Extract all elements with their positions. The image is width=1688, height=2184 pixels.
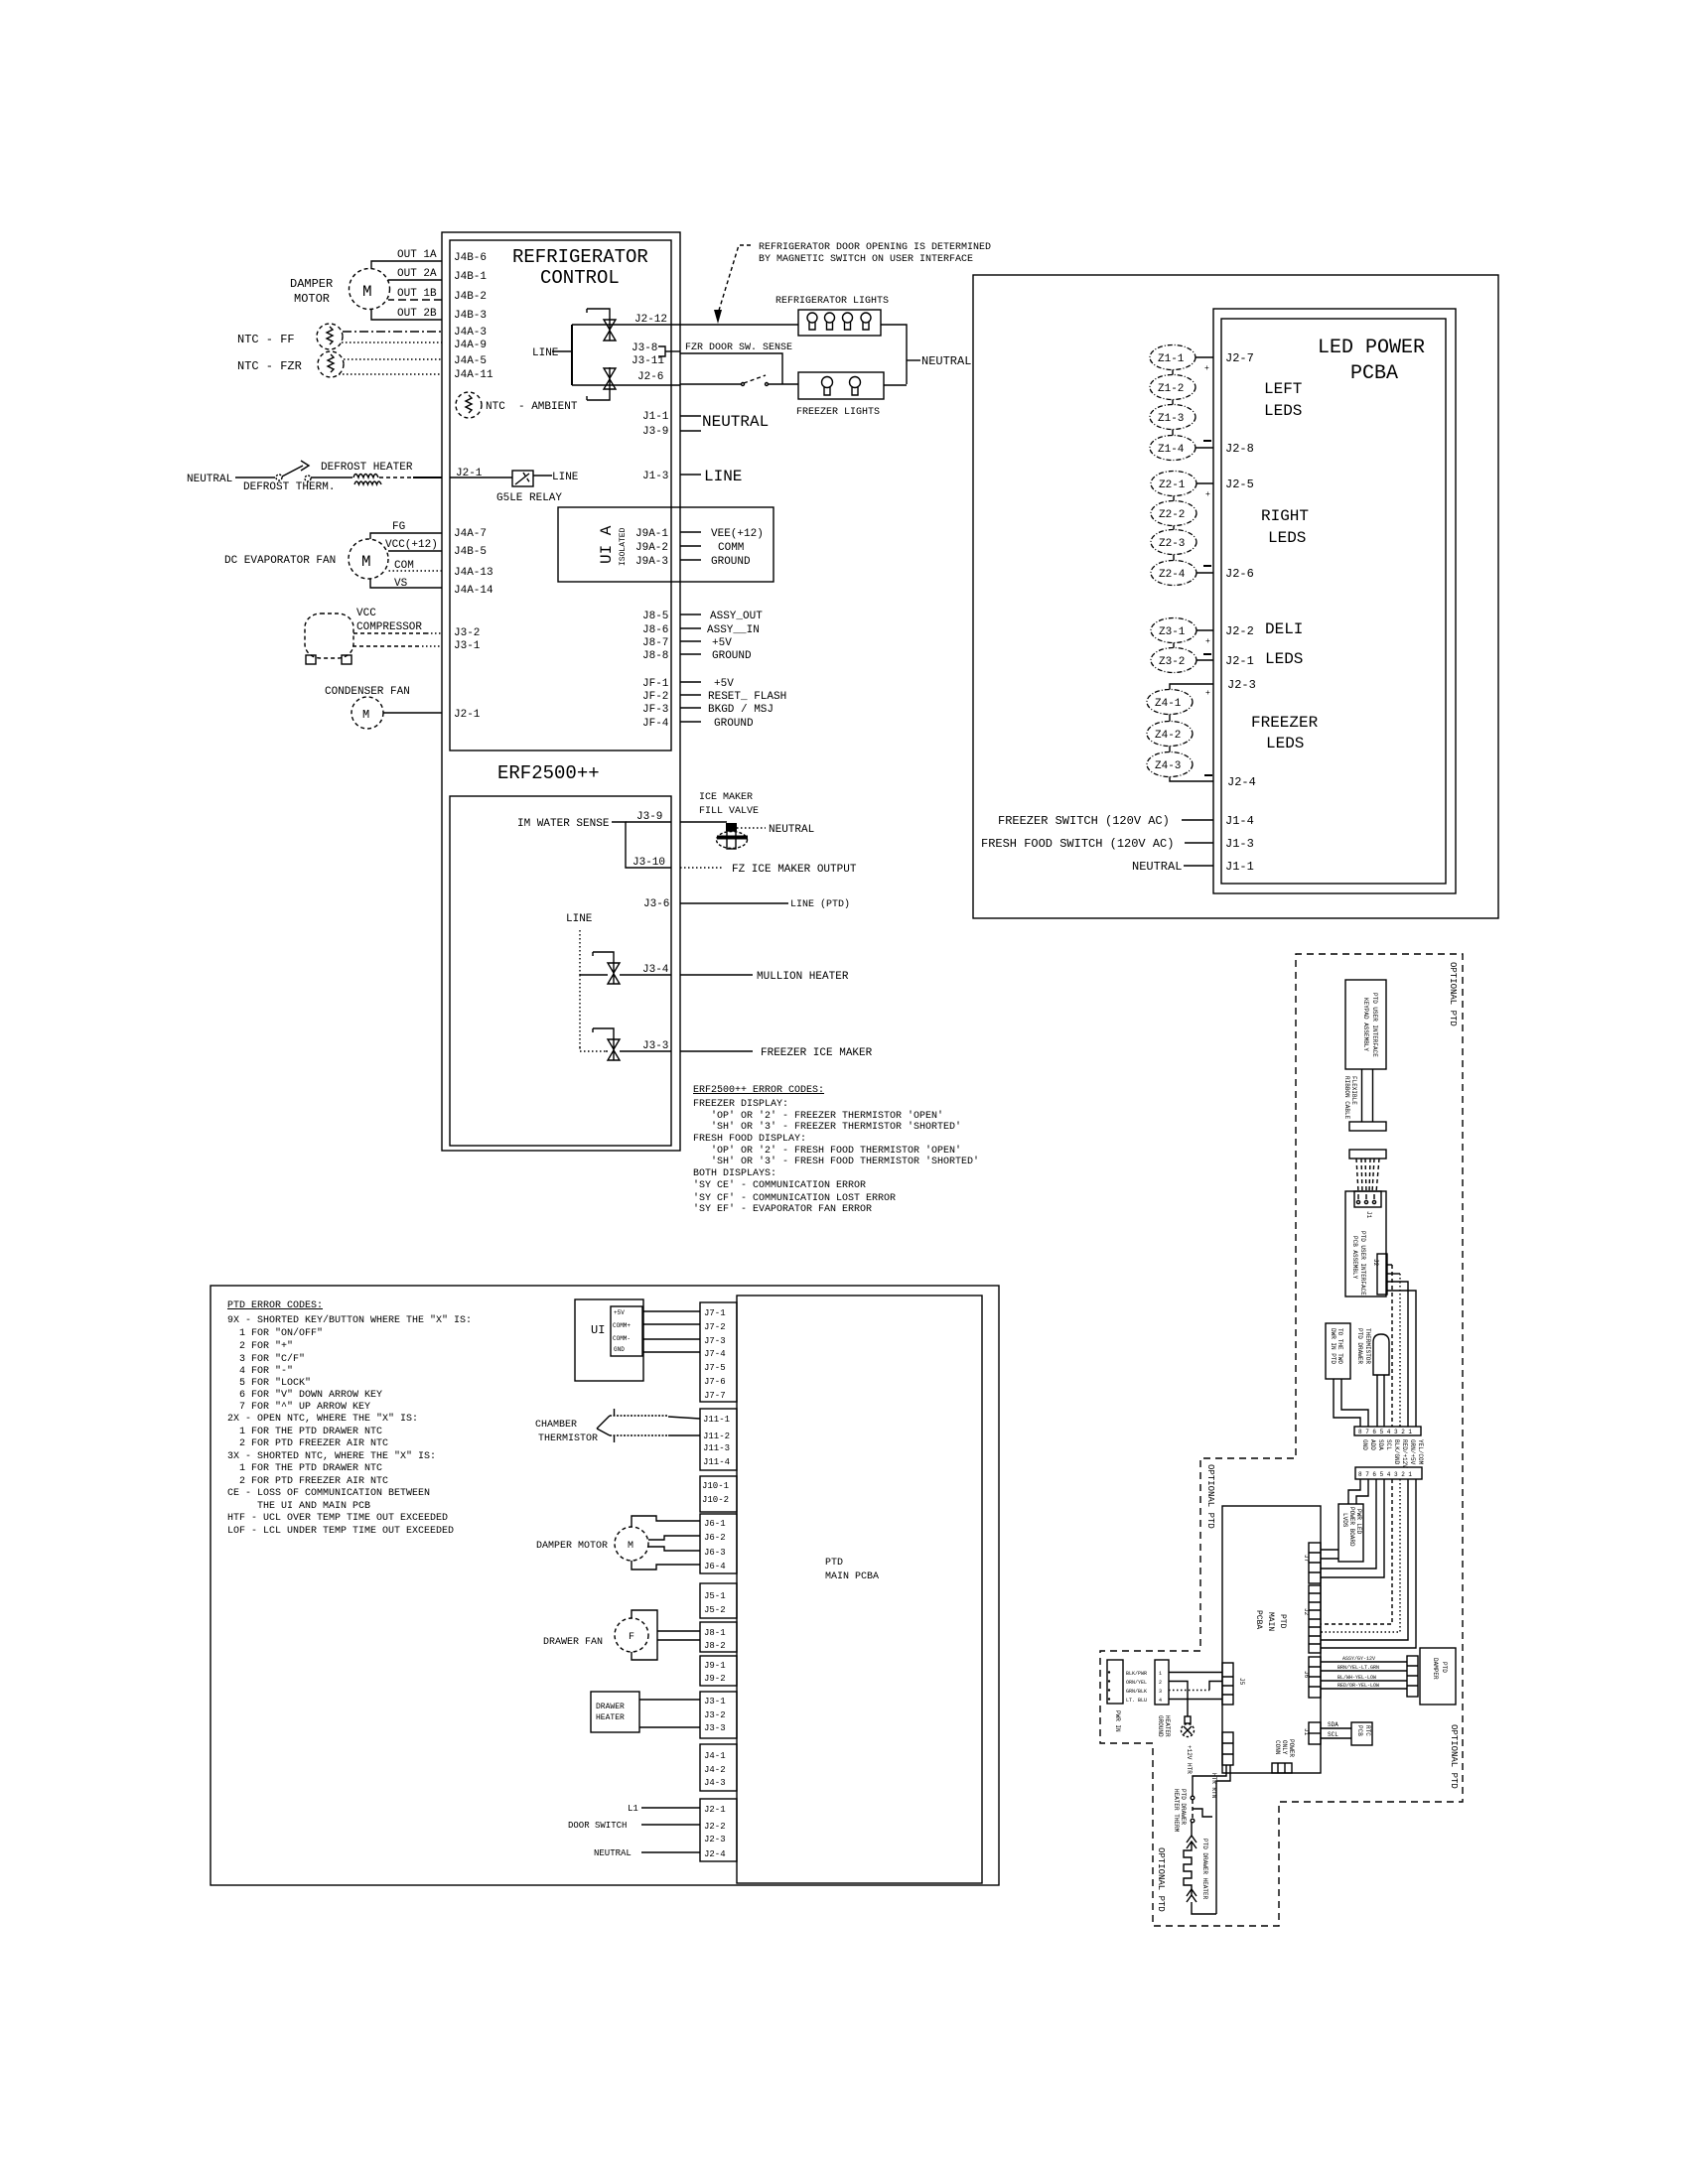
svg-text:FZR DOOR SW. SENSE: FZR DOOR SW. SENSE	[685, 342, 792, 353]
svg-text:J8-5: J8-5	[642, 611, 668, 622]
svg-text:5 FOR "LOCK": 5 FOR "LOCK"	[227, 1377, 311, 1389]
svg-text:MOTOR: MOTOR	[294, 292, 330, 306]
svg-text:REFRIGERATOR: REFRIGERATOR	[512, 246, 648, 268]
svg-text:J5-2: J5-2	[704, 1605, 726, 1615]
svg-text:J2-12: J2-12	[634, 314, 667, 326]
svg-text:J4-1: J4-1	[704, 1751, 726, 1761]
svg-text:J9A-2: J9A-2	[635, 542, 668, 554]
svg-text:J4A-5: J4A-5	[454, 355, 487, 367]
svg-text:J6: J6	[1303, 1671, 1310, 1679]
svg-text:Z4-3: Z4-3	[1155, 760, 1181, 772]
svg-text:+5V: +5V	[614, 1309, 625, 1316]
svg-text:PTD: PTD	[1441, 1662, 1448, 1673]
svg-text:HEATER THERM: HEATER THERM	[1173, 1789, 1180, 1833]
svg-text:J1-1: J1-1	[1225, 860, 1254, 874]
svg-text:ERF2500++: ERF2500++	[497, 762, 600, 784]
svg-text:J2-6: J2-6	[1225, 567, 1254, 581]
svg-text:SDA: SDA	[1328, 1721, 1338, 1728]
svg-text:DEFROST THERM.: DEFROST THERM.	[243, 481, 335, 493]
svg-text:NTC - AMBIENT: NTC - AMBIENT	[486, 401, 578, 413]
svg-text:PWR IN: PWR IN	[1114, 1710, 1121, 1732]
svg-text:G5LE RELAY: G5LE RELAY	[496, 492, 562, 504]
svg-text:J2: J2	[1303, 1608, 1310, 1616]
svg-text:3 FOR "C/F": 3 FOR "C/F"	[227, 1353, 305, 1365]
svg-text:LED POWER: LED POWER	[1318, 337, 1425, 359]
svg-text:3X - SHORTED NTC, WHERE THE "X: 3X - SHORTED NTC, WHERE THE "X" IS:	[227, 1450, 436, 1462]
svg-text:FREEZER ICE MAKER: FREEZER ICE MAKER	[761, 1047, 873, 1059]
svg-text:J4A-13: J4A-13	[454, 567, 493, 579]
svg-text:Z4-2: Z4-2	[1155, 730, 1181, 742]
svg-text:J11-2: J11-2	[703, 1432, 730, 1441]
svg-text:+12V HTR: +12V HTR	[1186, 1745, 1193, 1774]
svg-text:COMM-: COMM-	[613, 1335, 631, 1342]
svg-text:POWER: POWER	[1288, 1739, 1295, 1757]
svg-text:3: 3	[1159, 1689, 1162, 1695]
svg-text:UI: UI	[591, 1323, 605, 1337]
svg-text:J6-1: J6-1	[704, 1519, 726, 1529]
svg-text:J9-2: J9-2	[704, 1674, 726, 1684]
svg-text:CONN: CONN	[1274, 1740, 1281, 1755]
svg-text:FG: FG	[392, 521, 405, 533]
svg-text:J2-7: J2-7	[1225, 351, 1254, 365]
svg-text:J3-8: J3-8	[632, 342, 657, 354]
svg-text:J7-6: J7-6	[704, 1377, 726, 1387]
svg-text:GND: GND	[1361, 1439, 1368, 1450]
svg-text:OUT 2B: OUT 2B	[397, 308, 437, 320]
svg-text:LEDS: LEDS	[1264, 402, 1302, 420]
svg-text:J2-4: J2-4	[1227, 775, 1256, 789]
svg-text:J9A-3: J9A-3	[635, 556, 668, 568]
svg-text:DAMPER MOTOR: DAMPER MOTOR	[536, 1541, 608, 1552]
svg-text:LINE: LINE	[552, 472, 579, 483]
svg-text:VCC: VCC	[356, 608, 376, 619]
svg-text:PTD: PTD	[825, 1558, 843, 1569]
svg-text:2 FOR PTD FREEZER AIR NTC: 2 FOR PTD FREEZER AIR NTC	[227, 1476, 388, 1487]
svg-text:Z1-1: Z1-1	[1158, 353, 1185, 365]
svg-text:MULLION HEATER: MULLION HEATER	[757, 971, 849, 983]
svg-text:OUT 2A: OUT 2A	[397, 268, 437, 280]
svg-text:DELI: DELI	[1265, 620, 1303, 638]
svg-text:4 FOR "-": 4 FOR "-"	[227, 1365, 293, 1377]
svg-text:ONLY: ONLY	[1281, 1740, 1288, 1755]
svg-text:COMPRESSOR: COMPRESSOR	[356, 621, 422, 633]
svg-text:COMM+: COMM+	[613, 1322, 631, 1329]
svg-text:IM WATER SENSE: IM WATER SENSE	[517, 818, 610, 830]
svg-text:J3-2: J3-2	[454, 627, 480, 639]
svg-text:RED/+12V: RED/+12V	[1401, 1439, 1408, 1468]
svg-text:PCBA: PCBA	[1350, 362, 1398, 385]
svg-text:J1-1: J1-1	[642, 411, 669, 423]
svg-text:RTC: RTC	[1364, 1725, 1371, 1736]
svg-text:RESET_ FLASH: RESET_ FLASH	[708, 691, 786, 703]
svg-text:J1-3: J1-3	[642, 471, 668, 482]
svg-text:Z1-3: Z1-3	[1158, 413, 1184, 425]
svg-text:THERMISTOR: THERMISTOR	[538, 1433, 598, 1444]
svg-text:OUT 1B: OUT 1B	[397, 288, 437, 300]
svg-text:HEATER: HEATER	[596, 1713, 625, 1722]
svg-text:PTD USER INTERFACE: PTD USER INTERFACE	[1359, 1231, 1366, 1296]
svg-text:LINE: LINE	[704, 468, 742, 485]
svg-text:J5-1: J5-1	[704, 1591, 726, 1601]
svg-text:Z2-2: Z2-2	[1159, 509, 1185, 521]
svg-text:CE - LOSS OF COMMUNICATION BET: CE - LOSS OF COMMUNICATION BETWEEN	[227, 1488, 430, 1499]
svg-text:'SY CF' - COMMUNICATION LOST E: 'SY CF' - COMMUNICATION LOST ERROR	[693, 1192, 896, 1204]
svg-text:FREEZER SWITCH (120V AC): FREEZER SWITCH (120V AC)	[998, 814, 1170, 828]
svg-text:J3-9: J3-9	[642, 426, 668, 438]
svg-text:J3-3: J3-3	[642, 1040, 668, 1052]
svg-text:J3-1: J3-1	[454, 640, 481, 652]
svg-text:FRESH FOOD SWITCH (120V AC): FRESH FOOD SWITCH (120V AC)	[981, 837, 1174, 851]
svg-text:J10-1: J10-1	[702, 1481, 729, 1491]
svg-text:PCB: PCB	[1356, 1725, 1363, 1736]
svg-text:GROUND: GROUND	[712, 650, 752, 662]
svg-text:'SH' OR '3' - FRESH FOOD THERM: 'SH' OR '3' - FRESH FOOD THERMISTOR 'SHO…	[693, 1156, 979, 1167]
svg-text:CONDENSER FAN: CONDENSER FAN	[325, 686, 410, 698]
svg-text:THE UI AND MAIN PCB: THE UI AND MAIN PCB	[227, 1501, 370, 1512]
svg-text:+: +	[1204, 364, 1209, 373]
svg-text:'OP' OR '2' - FRESH FOOD THERM: 'OP' OR '2' - FRESH FOOD THERMISTOR 'OPE…	[693, 1145, 961, 1157]
svg-text:J1: J1	[1365, 1211, 1372, 1219]
svg-text:1 FOR THE PTD DRAWER NTC: 1 FOR THE PTD DRAWER NTC	[227, 1427, 382, 1437]
svg-text:Z4-1: Z4-1	[1155, 698, 1182, 710]
svg-text:FREEZER LIGHTS: FREEZER LIGHTS	[796, 407, 880, 418]
svg-text:PTD USER INTERFACE: PTD USER INTERFACE	[1371, 993, 1378, 1057]
svg-text:'OP' OR '2' - FREEZER THERMIST: 'OP' OR '2' - FREEZER THERMISTOR 'OPEN'	[693, 1110, 943, 1122]
svg-text:PTD DRAWER: PTD DRAWER	[1356, 1328, 1363, 1364]
svg-text:REFRIGERATOR DOOR OPENING IS D: REFRIGERATOR DOOR OPENING IS DETERMINED	[759, 242, 991, 253]
svg-text:DOOR SWITCH: DOOR SWITCH	[568, 1821, 627, 1831]
svg-text:J3-4: J3-4	[642, 964, 669, 976]
svg-text:DAMPER: DAMPER	[290, 277, 333, 291]
svg-text:J11-4: J11-4	[703, 1457, 730, 1467]
svg-text:BY MAGNETIC SWITCH ON USER INT: BY MAGNETIC SWITCH ON USER INTERFACE	[759, 254, 973, 265]
svg-text:VEE(+12): VEE(+12)	[711, 528, 764, 540]
svg-text:J2-1: J2-1	[1225, 654, 1254, 668]
svg-text:J8-2: J8-2	[704, 1641, 726, 1651]
svg-text:POWER BOARD: POWER BOARD	[1348, 1507, 1355, 1547]
svg-text:VCC(+12): VCC(+12)	[385, 539, 438, 551]
svg-text:FREEZER: FREEZER	[1251, 714, 1319, 732]
svg-text:OPTIONAL PTD: OPTIONAL PTD	[1205, 1464, 1215, 1529]
svg-text:J3-1: J3-1	[704, 1697, 726, 1706]
svg-text:J3-3: J3-3	[704, 1723, 726, 1733]
svg-text:LEDS: LEDS	[1266, 735, 1304, 752]
svg-text:RIBBON CABLE: RIBBON CABLE	[1343, 1076, 1350, 1120]
svg-text:JF-1: JF-1	[642, 678, 669, 690]
svg-text:2 FOR "+": 2 FOR "+"	[227, 1340, 293, 1352]
svg-text:J4B-2: J4B-2	[454, 291, 487, 303]
svg-text:ERF2500++ ERROR CODES:: ERF2500++ ERROR CODES:	[693, 1085, 824, 1096]
svg-text:J4A-11: J4A-11	[454, 369, 493, 381]
svg-text:BL/WH-YEL-LOW: BL/WH-YEL-LOW	[1337, 1675, 1376, 1681]
svg-text:+: +	[1205, 490, 1210, 499]
svg-text:M: M	[362, 283, 372, 301]
svg-text:LVDS: LVDS	[1341, 1513, 1348, 1528]
svg-text:J3-9: J3-9	[636, 811, 662, 823]
svg-text:ASSY__IN: ASSY__IN	[707, 624, 760, 636]
svg-text:DRAWER FAN: DRAWER FAN	[543, 1637, 603, 1648]
svg-text:NEUTRAL: NEUTRAL	[1132, 860, 1182, 874]
svg-text:OPTIONAL PTD: OPTIONAL PTD	[1449, 1724, 1459, 1789]
svg-text:J2-1: J2-1	[704, 1805, 726, 1815]
svg-text:Z2-4: Z2-4	[1159, 569, 1186, 581]
svg-text:L1: L1	[628, 1804, 638, 1814]
svg-text:J9A-1: J9A-1	[635, 528, 668, 540]
svg-text:'SY EF' - EVAPORATOR FAN ERROR: 'SY EF' - EVAPORATOR FAN ERROR	[693, 1203, 872, 1215]
svg-text:GROUND: GROUND	[711, 556, 751, 568]
svg-text:BLK/GND: BLK/GND	[1393, 1439, 1400, 1465]
svg-text:J4A-14: J4A-14	[454, 585, 493, 597]
svg-text:J2-2: J2-2	[1225, 624, 1254, 638]
svg-text:CONTROL: CONTROL	[540, 267, 620, 289]
svg-text:J2-8: J2-8	[1225, 442, 1254, 456]
svg-text:J4A-3: J4A-3	[454, 327, 487, 339]
svg-text:YEL/COM: YEL/COM	[1417, 1439, 1424, 1465]
svg-text:J5: J5	[1238, 1678, 1245, 1686]
svg-text:BOTH DISPLAYS:: BOTH DISPLAYS:	[693, 1168, 776, 1179]
svg-text:COMM: COMM	[718, 542, 744, 554]
svg-text:REFRIGERATOR LIGHTS: REFRIGERATOR LIGHTS	[775, 296, 889, 307]
svg-text:LEFT: LEFT	[1264, 380, 1302, 398]
svg-text:HTF - UCL OVER TEMP TIME OUT E: HTF - UCL OVER TEMP TIME OUT EXCEEDED	[227, 1513, 448, 1524]
svg-text:LINE: LINE	[532, 347, 559, 359]
svg-text:DRAWER: DRAWER	[596, 1703, 625, 1711]
svg-text:J7-7: J7-7	[704, 1391, 726, 1401]
svg-text:NEUTRAL: NEUTRAL	[921, 354, 971, 368]
svg-text:LINE: LINE	[566, 913, 593, 925]
svg-text:LOF - LCL UNDER TEMP TIME OUT: LOF - LCL UNDER TEMP TIME OUT EXCEEDED	[227, 1526, 454, 1537]
svg-text:Z3-1: Z3-1	[1159, 626, 1186, 638]
svg-text:J7-5: J7-5	[704, 1363, 726, 1373]
svg-text:J2-3: J2-3	[1227, 678, 1256, 692]
svg-text:FREEZER DISPLAY:: FREEZER DISPLAY:	[693, 1099, 788, 1110]
svg-text:HEATER: HEATER	[1164, 1715, 1171, 1737]
svg-text:GRN/+5V: GRN/+5V	[1409, 1439, 1416, 1465]
svg-text:J4B-1: J4B-1	[454, 271, 487, 283]
svg-text:OPTIONAL PTD: OPTIONAL PTD	[1448, 962, 1458, 1026]
svg-text:SDA: SDA	[1377, 1439, 1384, 1450]
svg-text:SCL: SCL	[1385, 1439, 1392, 1450]
svg-text:6 FOR "V" DOWN ARROW KEY: 6 FOR "V" DOWN ARROW KEY	[227, 1389, 382, 1401]
svg-text:J7-3: J7-3	[704, 1336, 726, 1346]
svg-text:PTD: PTD	[1278, 1614, 1287, 1629]
svg-text:J4B-3: J4B-3	[454, 310, 487, 322]
svg-text:2X - OPEN NTC, WHERE THE "X" I: 2X - OPEN NTC, WHERE THE "X" IS:	[227, 1413, 418, 1425]
svg-text:J7-1: J7-1	[704, 1308, 726, 1318]
svg-text:RIGHT: RIGHT	[1261, 507, 1309, 525]
svg-text:BRN/YEL-LT.GRN: BRN/YEL-LT.GRN	[1337, 1665, 1379, 1671]
svg-text:FLEXIBLE: FLEXIBLE	[1350, 1076, 1357, 1105]
svg-text:NEUTRAL: NEUTRAL	[769, 824, 814, 836]
svg-text:J2-6: J2-6	[637, 371, 663, 383]
svg-text:J2-2: J2-2	[704, 1822, 726, 1832]
svg-text:JF-3: JF-3	[642, 704, 668, 716]
svg-text:KEYPAD ASSEMBLY: KEYPAD ASSEMBLY	[1362, 998, 1369, 1051]
svg-text:J6-3: J6-3	[704, 1548, 726, 1558]
svg-text:TO THE TWO: TO THE TWO	[1336, 1328, 1343, 1364]
svg-text:BKGD / MSJ: BKGD / MSJ	[708, 704, 774, 716]
svg-text:FRESH FOOD DISPLAY:: FRESH FOOD DISPLAY:	[693, 1134, 806, 1145]
svg-text:8 7 6 5 4 3 2 1: 8 7 6 5 4 3 2 1	[1358, 1429, 1412, 1435]
svg-text:JF-2: JF-2	[642, 691, 668, 703]
svg-text:NEUTRAL: NEUTRAL	[702, 413, 769, 431]
svg-text:+: +	[1205, 689, 1210, 698]
svg-text:J4B-5: J4B-5	[454, 546, 487, 558]
svg-text:ASSY_OUT: ASSY_OUT	[710, 611, 763, 622]
svg-text:F: F	[629, 1632, 634, 1643]
svg-text:GRN/BLK: GRN/BLK	[1126, 1689, 1147, 1695]
svg-text:MAIN PCBA: MAIN PCBA	[825, 1571, 879, 1582]
svg-text:UI A: UI A	[598, 525, 616, 564]
svg-text:J2-4: J2-4	[704, 1849, 726, 1859]
svg-text:J2: J2	[1372, 1259, 1379, 1267]
svg-text:2: 2	[1159, 1680, 1162, 1686]
svg-text:J4B-6: J4B-6	[454, 252, 487, 264]
svg-text:J4A-9: J4A-9	[454, 340, 487, 351]
svg-text:PWR LED: PWR LED	[1355, 1509, 1362, 1535]
svg-text:J7-4: J7-4	[704, 1349, 726, 1359]
svg-text:J3-2: J3-2	[704, 1710, 726, 1720]
svg-text:DAMPER: DAMPER	[1432, 1658, 1439, 1680]
svg-text:7 FOR "^" UP ARROW KEY: 7 FOR "^" UP ARROW KEY	[227, 1401, 370, 1413]
svg-text:ADD: ADD	[1369, 1439, 1376, 1450]
svg-text:J8-8: J8-8	[642, 650, 668, 662]
svg-text:M: M	[628, 1541, 633, 1552]
svg-text:SCL: SCL	[1328, 1731, 1338, 1738]
svg-text:+: +	[1205, 637, 1210, 646]
svg-text:FZ ICE MAKER OUTPUT: FZ ICE MAKER OUTPUT	[732, 864, 857, 876]
svg-text:HTR RTN: HTR RTN	[1210, 1773, 1217, 1799]
svg-text:LT. BLU: LT. BLU	[1126, 1698, 1147, 1704]
svg-text:NEUTRAL: NEUTRAL	[187, 474, 232, 485]
svg-text:1 FOR "ON/OFF": 1 FOR "ON/OFF"	[227, 1327, 323, 1339]
svg-text:PCB ASSEMBLY: PCB ASSEMBLY	[1351, 1236, 1358, 1280]
svg-text:+5V: +5V	[714, 678, 734, 690]
svg-text:M: M	[361, 553, 371, 571]
svg-text:J1: J1	[1303, 1728, 1310, 1736]
svg-text:J3-10: J3-10	[633, 857, 665, 869]
svg-text:PTD DRAWER HEATER: PTD DRAWER HEATER	[1201, 1839, 1208, 1900]
svg-text:J4-2: J4-2	[704, 1765, 726, 1775]
svg-text:LEDS: LEDS	[1265, 650, 1303, 668]
svg-text:J10-2: J10-2	[702, 1495, 729, 1505]
svg-text:Z2-1: Z2-1	[1159, 479, 1186, 491]
svg-text:PTD DRAWER: PTD DRAWER	[1180, 1789, 1187, 1825]
svg-text:8 7 6 5 4 3 2 1: 8 7 6 5 4 3 2 1	[1358, 1471, 1412, 1478]
svg-text:J2-1: J2-1	[454, 709, 481, 721]
svg-text:J3-11: J3-11	[632, 355, 664, 367]
svg-text:NTC - FZR: NTC - FZR	[237, 359, 302, 373]
svg-text:J11-1: J11-1	[703, 1415, 730, 1425]
svg-text:J3-6: J3-6	[643, 898, 669, 910]
svg-text:J6-4: J6-4	[704, 1562, 726, 1571]
svg-text:J9-1: J9-1	[704, 1661, 726, 1671]
svg-text:J1-4: J1-4	[1225, 814, 1254, 828]
svg-text:1: 1	[1159, 1671, 1162, 1677]
svg-text:'SH' OR '3' - FREEZER THERMIST: 'SH' OR '3' - FREEZER THERMISTOR 'SHORTE…	[693, 1121, 961, 1133]
svg-text:BLK/PWR: BLK/PWR	[1126, 1671, 1147, 1677]
svg-text:NTC - FF: NTC - FF	[237, 333, 295, 346]
svg-text:CHAMBER: CHAMBER	[535, 1420, 577, 1431]
svg-text:J6-2: J6-2	[704, 1533, 726, 1543]
svg-text:THERMISTOR: THERMISTOR	[1364, 1328, 1371, 1364]
svg-text:RED/OR-YEL-LOW: RED/OR-YEL-LOW	[1337, 1683, 1379, 1689]
svg-text:OUT 1A: OUT 1A	[397, 249, 437, 261]
svg-text:ICE MAKER: ICE MAKER	[699, 792, 753, 803]
svg-text:+5V: +5V	[712, 637, 732, 649]
svg-text:J1-3: J1-3	[1225, 837, 1254, 851]
svg-text:J4A-7: J4A-7	[454, 528, 487, 540]
svg-text:DC EVAPORATOR FAN: DC EVAPORATOR FAN	[224, 555, 336, 567]
svg-text:1 FOR THE PTD DRAWER NTC: 1 FOR THE PTD DRAWER NTC	[227, 1463, 382, 1474]
svg-text:Z1-2: Z1-2	[1158, 383, 1184, 395]
svg-text:'SY CE' - COMMUNICATION ERROR: 'SY CE' - COMMUNICATION ERROR	[693, 1179, 866, 1191]
svg-text:Z1-4: Z1-4	[1158, 444, 1185, 456]
svg-text:J2-3: J2-3	[704, 1835, 726, 1844]
svg-text:FILL VALVE: FILL VALVE	[699, 806, 759, 817]
svg-text:PTD ERROR CODES:: PTD ERROR CODES:	[227, 1300, 323, 1311]
svg-text:ASSY/GY-12V: ASSY/GY-12V	[1342, 1656, 1375, 1662]
svg-text:Z2-3: Z2-3	[1159, 538, 1185, 550]
svg-text:J8-1: J8-1	[704, 1628, 726, 1638]
svg-text:MAIN: MAIN	[1266, 1612, 1275, 1631]
svg-text:J7-2: J7-2	[704, 1322, 726, 1332]
svg-text:GROUND: GROUND	[714, 718, 754, 730]
svg-text:9X - SHORTED KEY/BUTTON WHERE: 9X - SHORTED KEY/BUTTON WHERE THE "X" IS…	[227, 1314, 472, 1326]
svg-text:J2-5: J2-5	[1225, 478, 1254, 491]
svg-text:J4-3: J4-3	[704, 1778, 726, 1788]
svg-text:JF-4: JF-4	[642, 718, 669, 730]
svg-text:COM: COM	[394, 560, 414, 572]
svg-text:ORN/YEL: ORN/YEL	[1126, 1680, 1147, 1686]
svg-text:NEUTRAL: NEUTRAL	[594, 1848, 632, 1858]
svg-text:LEDS: LEDS	[1268, 529, 1306, 547]
svg-text:GND: GND	[614, 1346, 625, 1353]
svg-text:M: M	[362, 708, 369, 722]
svg-text:J8-7: J8-7	[642, 637, 668, 649]
svg-text:PCBA: PCBA	[1254, 1610, 1263, 1629]
svg-text:J7: J7	[1303, 1555, 1310, 1563]
svg-text:LINE (PTD): LINE (PTD)	[790, 898, 850, 910]
svg-text:OPTIONAL PTD: OPTIONAL PTD	[1156, 1847, 1166, 1912]
svg-text:DEFROST HEATER: DEFROST HEATER	[321, 462, 413, 474]
svg-text:Z3-2: Z3-2	[1159, 656, 1185, 668]
svg-text:DWR IN PTD: DWR IN PTD	[1330, 1328, 1336, 1364]
svg-text:2 FOR PTD FREEZER AIR NTC: 2 FOR PTD FREEZER AIR NTC	[227, 1438, 388, 1449]
svg-text:ISOLATED: ISOLATED	[619, 527, 628, 566]
svg-text:4: 4	[1159, 1698, 1162, 1704]
svg-text:J11-3: J11-3	[703, 1443, 730, 1453]
svg-text:GROUND: GROUND	[1157, 1715, 1164, 1737]
svg-text:J8-6: J8-6	[642, 624, 668, 636]
